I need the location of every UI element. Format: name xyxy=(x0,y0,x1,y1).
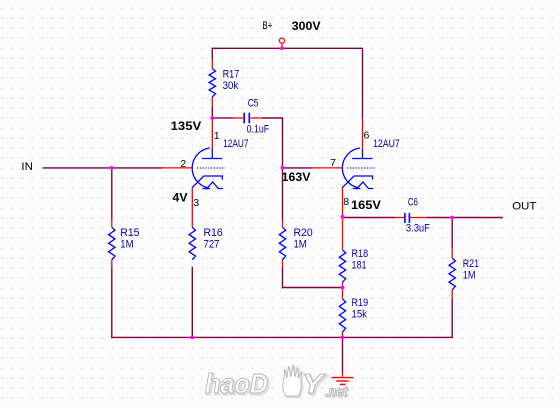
resistor R19 15k xyxy=(339,299,345,332)
svg-text:30k: 30k xyxy=(223,80,239,92)
svg-text:1M: 1M xyxy=(463,270,476,282)
pin: V2 grid lead (pin 7) xyxy=(313,167,342,169)
svg-text:1M: 1M xyxy=(294,238,307,250)
pin: C6 left lead xyxy=(395,217,404,219)
wire: B+ rail to R17 top xyxy=(211,48,213,59)
pin: R19 bottom lead xyxy=(342,332,344,337)
svg-text:181: 181 xyxy=(352,260,367,272)
svg-text:haoD: haoD xyxy=(205,368,268,399)
wire: OUT node to OUT terminal xyxy=(452,217,503,219)
pin: V1 cathode lead (pin 3) + R16 top xyxy=(191,188,193,228)
svg-text:7: 7 xyxy=(330,157,336,169)
B+ terminal circle xyxy=(279,38,284,43)
wire: 163V node to V2 grid pin xyxy=(283,167,313,169)
wire: C6 right to OUT node xyxy=(426,217,452,219)
triode V1 12AU7 (left) xyxy=(192,148,225,189)
svg-text:300V: 300V xyxy=(292,19,321,33)
svg-text:3.3uF: 3.3uF xyxy=(406,222,430,234)
pin: V1 plate lead (pin 1) xyxy=(211,118,213,150)
svg-text:.net: .net xyxy=(325,383,348,399)
svg-text:C6: C6 xyxy=(408,197,418,209)
wire: R15 bottom down to bottom rail xyxy=(111,267,113,338)
svg-text:R21: R21 xyxy=(463,258,479,270)
capacitor C5 0.1uF plates xyxy=(243,113,245,124)
ground symbol xyxy=(342,374,344,378)
wire: R20 bottom down to corner xyxy=(282,267,284,289)
resistor R20 1M xyxy=(279,227,285,260)
pin: R15 top lead xyxy=(111,220,113,227)
wire: IN junction down to R15 xyxy=(111,168,113,220)
svg-text:R20: R20 xyxy=(294,227,313,239)
resistor R18 181 xyxy=(339,250,345,282)
wire: R20 corner to R18/R19 node xyxy=(282,287,343,289)
resistor R16 727 xyxy=(189,227,195,260)
resistor R17 30k xyxy=(209,69,215,98)
svg-text:R18: R18 xyxy=(352,248,369,260)
wire: B+ rail down to V2 plate xyxy=(362,48,364,118)
junction: R16 at bottom rail xyxy=(190,336,194,340)
svg-text:Y: Y xyxy=(302,368,326,399)
svg-text:IN: IN xyxy=(21,161,33,173)
svg-text:OUT: OUT xyxy=(512,201,537,213)
svg-text:1M: 1M xyxy=(120,238,133,250)
junction: B+ on rail xyxy=(280,46,284,50)
pin: R21 bottom lead xyxy=(451,290,453,299)
junction: R18/R19/R20 node xyxy=(341,286,345,290)
pin: C6 right lead xyxy=(410,217,426,219)
junction: OUT node xyxy=(450,216,454,220)
wire: R16 bottom to bottom rail xyxy=(191,267,193,338)
pin: R17 top lead xyxy=(211,59,213,69)
pin: C5 left lead xyxy=(233,117,243,119)
pin: R20 top lead xyxy=(282,220,284,227)
svg-text:8: 8 xyxy=(343,196,349,208)
svg-text:12AU7: 12AU7 xyxy=(373,138,400,150)
svg-text:15k: 15k xyxy=(352,309,368,321)
wire: R21 bottom to bottom rail corner xyxy=(451,299,453,338)
watermark haoDIY.net xyxy=(205,365,349,401)
svg-text:727: 727 xyxy=(204,238,220,250)
triode V2 12AU7 (right) xyxy=(342,148,375,189)
capacitor C6 3.3uF plates xyxy=(404,213,406,223)
svg-text:3: 3 xyxy=(193,197,199,209)
pin: V1 grid lead (pin 2) xyxy=(163,167,193,169)
pin: C5 right lead xyxy=(251,117,262,119)
wire: C5 right to corner xyxy=(262,117,283,119)
svg-text:165V: 165V xyxy=(351,198,381,212)
pin: R15 bottom lead xyxy=(111,260,113,267)
svg-text:2: 2 xyxy=(180,158,186,170)
pin: R21 top lead xyxy=(451,249,453,258)
pin: R18 bottom lead xyxy=(342,282,344,287)
wire: IN to grid junction xyxy=(43,167,163,169)
svg-text:0.1uF: 0.1uF xyxy=(247,124,270,136)
wire: bottom rail horizontal xyxy=(111,336,452,338)
wire: 165V node to C6 left xyxy=(343,217,396,219)
resistor R21 1M xyxy=(449,258,455,290)
B+ terminal stem xyxy=(281,43,283,48)
pin: R20 bottom lead xyxy=(282,260,284,267)
junction: 163V node xyxy=(281,166,285,170)
resistor R15 1M xyxy=(109,227,115,260)
svg-text:12AU7: 12AU7 xyxy=(223,138,248,150)
wire: corner down x=282 through 163V node to R20 xyxy=(282,118,284,220)
wire: B+ rail top horizontal xyxy=(212,47,362,49)
junction: IN / grid / R15 xyxy=(110,166,114,170)
svg-text:4V: 4V xyxy=(173,191,188,205)
svg-text:R15: R15 xyxy=(120,227,139,239)
pin: R19 top lead xyxy=(342,288,344,299)
svg-text:163V: 163V xyxy=(282,170,311,184)
junction: 165V node xyxy=(341,215,345,219)
svg-text:C5: C5 xyxy=(248,98,259,110)
pin: R17 bottom lead xyxy=(211,97,213,107)
pin: V2 cathode lead (pin 8) + R18 top xyxy=(342,188,344,250)
svg-text:135V: 135V xyxy=(171,119,202,133)
wire: R17 bottom to 135V node xyxy=(211,107,213,119)
junction: 135V node xyxy=(210,116,214,120)
wire: bottom rail to ground xyxy=(342,337,344,373)
svg-text:B+: B+ xyxy=(262,20,272,32)
svg-text:R17: R17 xyxy=(223,69,240,81)
svg-text:1: 1 xyxy=(214,130,220,142)
pin: V2 plate lead (pin 6) xyxy=(362,119,364,150)
svg-text:R19: R19 xyxy=(352,297,369,309)
svg-text:R16: R16 xyxy=(204,227,223,239)
junction: ground at bottom rail xyxy=(341,336,345,340)
wire: 135V node to C5 left xyxy=(212,117,234,119)
wire: OUT node down to R21 xyxy=(451,217,453,249)
svg-text:6: 6 xyxy=(364,130,370,142)
